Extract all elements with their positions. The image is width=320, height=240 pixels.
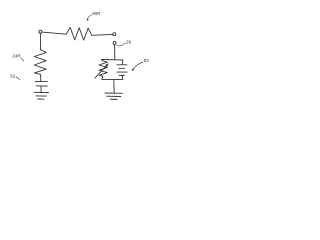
battery plate 4 (short) — [119, 74, 124, 76]
wire: top side of network 53 — [102, 59, 123, 61]
svg-text:53: 53 — [144, 58, 150, 63]
resistor 24R (vertical zigzag) — [34, 50, 46, 75]
capacitor 52 plate 2 — [36, 85, 47, 87]
svg-text:80R: 80R — [92, 11, 101, 16]
left ground symbol (3 bars) — [34, 91, 48, 93]
battery B1 / capacitor stack (right branch of 53): top lead — [121, 60, 124, 65]
resistor 80R (horizontal zigzag) — [66, 27, 92, 40]
leader line for label 53 (with arrowhead) — [133, 62, 143, 69]
wire from terminal 29 down to network 53 — [114, 45, 116, 60]
wire from resistor 24R to capacitor 52 — [40, 74, 42, 81]
variable resistor (left branch of 53): lead, zigzag, lead — [102, 60, 104, 62]
battery plate 1 (long) — [117, 64, 127, 66]
wire from input terminal to resistor 80R — [42, 32, 66, 34]
capacitor 52 plate 1 — [35, 80, 47, 82]
wire: bottom side of network 53 — [102, 78, 123, 80]
leader line for label 52 — [16, 77, 20, 80]
leader line for label 29 — [117, 43, 126, 46]
svg-text:52: 52 — [10, 74, 16, 79]
svg-text:24R: 24R — [12, 53, 21, 58]
right ground symbol (3 bars) — [105, 92, 122, 94]
terminal 29 (open circle) — [113, 41, 116, 44]
wire from capacitor 52 to left ground — [40, 86, 42, 92]
leader line for label 80R (with arrowhead) — [88, 15, 92, 19]
wire from network 53 to right ground — [113, 79, 115, 93]
wiper arrow of variable resistor — [95, 65, 107, 78]
battery plate 3 (long) — [117, 71, 127, 73]
battery bottom lead — [121, 76, 123, 80]
svg-text:29: 29 — [126, 39, 132, 44]
terminal (open circle, right end of top wire) — [113, 33, 116, 36]
leader line for label 24R — [21, 58, 24, 61]
input terminal (open circle, top left) — [39, 30, 42, 33]
wire from input terminal down to resistor 24R — [39, 33, 41, 49]
battery plate 2 (short) — [119, 67, 125, 69]
wire from resistor 80R to right terminal — [92, 33, 113, 36]
